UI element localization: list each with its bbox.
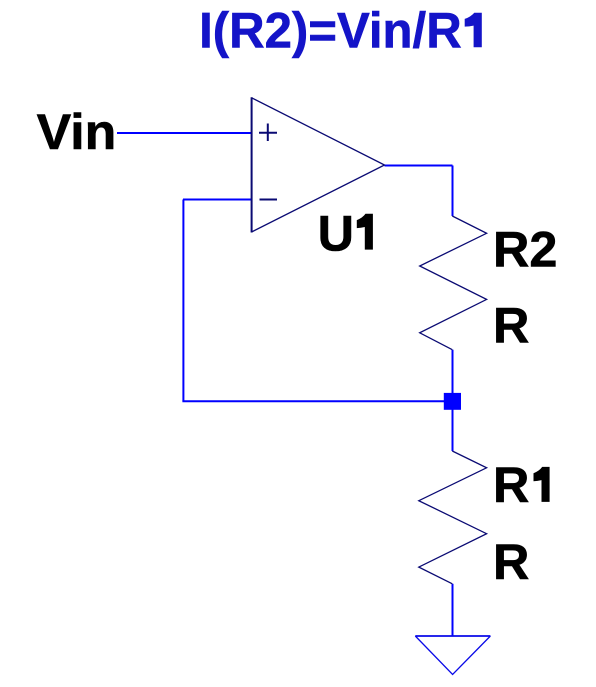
svg-text:U: U bbox=[318, 204, 354, 261]
svg-text:R: R bbox=[493, 533, 529, 590]
svg-text:I(R2)=Vin/R: I(R2)=Vin/R bbox=[199, 2, 462, 59]
svg-text:R2: R2 bbox=[493, 220, 557, 277]
svg-text:R: R bbox=[493, 297, 529, 354]
svg-text:Vin: Vin bbox=[37, 103, 117, 160]
svg-text:R: R bbox=[493, 456, 529, 513]
